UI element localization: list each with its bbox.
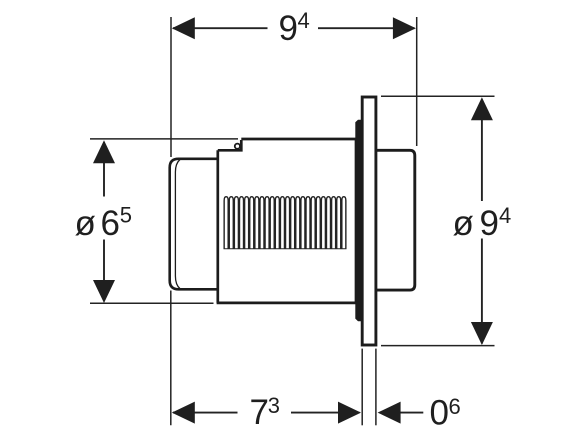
- svg-text:9: 9: [480, 204, 499, 243]
- svg-text:6: 6: [101, 204, 120, 243]
- svg-text:ø: ø: [75, 204, 96, 243]
- svg-text:0: 0: [430, 393, 449, 432]
- svg-text:5: 5: [120, 203, 132, 228]
- svg-text:9: 9: [279, 9, 298, 48]
- svg-text:4: 4: [499, 203, 511, 228]
- svg-text:3: 3: [268, 393, 280, 418]
- svg-text:4: 4: [298, 8, 310, 33]
- svg-text:6: 6: [449, 394, 461, 419]
- svg-text:7: 7: [250, 393, 269, 432]
- svg-text:ø: ø: [453, 204, 474, 243]
